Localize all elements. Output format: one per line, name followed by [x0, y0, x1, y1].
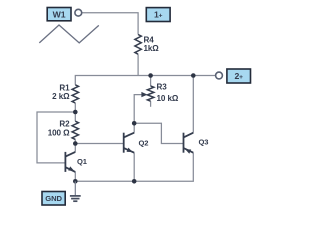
wire: R1 bottom to R2 top rail: [74, 103, 76, 121]
resistor R3 (rheostat with wiper arrow): [147, 86, 153, 101]
transistor Q1 (NPN): [65, 152, 75, 172]
resistor R2: [72, 121, 78, 139]
svg-text:2 kΩ: 2 kΩ: [52, 92, 70, 101]
wire: Q2 emitter lead: [133, 153, 135, 182]
svg-text:W1: W1: [53, 9, 66, 19]
svg-text:10 kΩ: 10 kΩ: [157, 94, 179, 103]
transistor Q2 (NPN): [124, 133, 135, 153]
svg-text:Q1: Q1: [77, 157, 88, 166]
wire: Q1 emitter lead to ground node: [74, 172, 76, 181]
wire: node row y=75: [75, 76, 215, 85]
wire: R3 wiper to Q2 collector node: [134, 95, 142, 124]
label box W1: [47, 8, 71, 21]
junction dot Q2 collector node: [132, 121, 137, 126]
terminal circle at 2+: [216, 72, 223, 79]
svg-text:R3: R3: [157, 83, 168, 92]
label box 1+: [146, 8, 170, 22]
wire: R3 bottom lead (unconnected): [150, 101, 152, 107]
svg-text:1kΩ: 1kΩ: [144, 44, 160, 53]
svg-text:R1: R1: [59, 83, 70, 92]
ground symbol: [70, 181, 81, 201]
wire: R3 top lead: [150, 76, 152, 87]
label box GND: [42, 192, 65, 206]
wire: Q3 collector lead up to node row: [192, 76, 194, 133]
wire: Q2 collector node to Q3 base (step): [134, 123, 183, 143]
junction dot Q3 collector at node row: [191, 73, 196, 78]
junction dot Q2 emitter at row: [132, 179, 137, 184]
junction dot R2/Q1C/Q2B node: [73, 141, 78, 146]
resistor R4: [135, 35, 141, 55]
wiper arrowhead of R3: [141, 92, 147, 97]
terminal circle at W1: [75, 9, 82, 16]
svg-text:Q3: Q3: [199, 138, 209, 147]
svg-text:R2: R2: [59, 119, 70, 128]
wire: R2 bottom to Q1 collector corner: [74, 139, 76, 152]
wire: bottom emitter row to Q3 emitter: [75, 153, 193, 182]
junction dot ground node: [73, 179, 78, 184]
wire: R4 bottom lead: [137, 54, 139, 75]
svg-text:GND: GND: [45, 194, 62, 203]
wire: W1 terminal to R4 top corner: [82, 13, 138, 35]
resistor R1: [72, 85, 78, 103]
wire: feedback loop R1/R2 junction to Q1 base: [37, 112, 75, 163]
wire: node to Q2 base: [75, 143, 123, 145]
waveform symbol (triangle wave) for W1: [39, 25, 99, 43]
junction dot R3 top: [148, 73, 153, 78]
label box 2+: [227, 69, 251, 83]
junction dot R1/R2: [73, 110, 78, 115]
svg-text:Q2: Q2: [139, 138, 149, 147]
transistor Q3 (PNP): [184, 133, 194, 153]
wire: Q2 collector lead: [133, 123, 135, 132]
svg-text:100 Ω: 100 Ω: [48, 129, 70, 138]
